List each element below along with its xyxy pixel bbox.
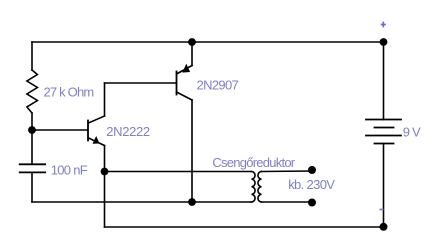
wire Q1 collector to Q2 base xyxy=(105,82,177,84)
wire battery negative to bottom rail xyxy=(383,144,385,228)
svg-text:100 nF: 100 nF xyxy=(51,163,88,178)
wire left rail top to resistor xyxy=(31,42,33,70)
wire node E down to bottom rail xyxy=(104,172,106,228)
junction node B xyxy=(28,126,36,134)
junction Q2 collector primary bottom xyxy=(188,198,196,206)
junction top rail right battery xyxy=(380,38,388,46)
svg-text:kb. 230V: kb. 230V xyxy=(288,177,335,192)
wire base of Q1 xyxy=(32,129,88,131)
wire secondary top lead xyxy=(262,170,313,173)
wire top rail to battery positive xyxy=(383,42,385,120)
wire bottom rail xyxy=(105,226,384,228)
junction top rail Q2 emitter xyxy=(188,38,196,46)
wire Q1 emitter down to node E xyxy=(104,146,106,172)
junction bottom rail battery negative xyxy=(380,223,388,231)
label battery minus xyxy=(379,209,383,211)
terminal secondary top xyxy=(308,166,316,174)
wire capacitor to bottom-left corner xyxy=(31,172,33,202)
capacitor C1 100 nF xyxy=(20,164,45,172)
svg-text:27 k Ohm: 27 k Ohm xyxy=(44,85,94,100)
transistor Q2 2N2907 xyxy=(177,64,193,100)
wire Q2 collector down to bottom node xyxy=(191,100,193,202)
junction node E xyxy=(101,168,109,176)
battery BT1 plates xyxy=(366,120,401,144)
transistor Q1 2N2222 xyxy=(88,116,105,146)
wire top rail xyxy=(32,41,384,43)
transformer T1 secondary winding xyxy=(258,172,262,203)
wire bottom-left horizontal to transformer primary bottom xyxy=(32,201,252,203)
wire secondary bottom lead xyxy=(262,201,313,203)
wire Q2 emitter to top rail xyxy=(191,42,193,66)
resistor R1 27 k Ohm xyxy=(27,70,38,113)
svg-text:2N2907: 2N2907 xyxy=(197,78,239,93)
label battery plus xyxy=(381,22,386,28)
wire node E to transformer primary top xyxy=(105,171,252,173)
transformer T1 primary winding xyxy=(252,172,256,203)
wire resistor to node B xyxy=(31,113,33,130)
svg-text:2N2222: 2N2222 xyxy=(106,124,150,139)
terminal secondary bottom xyxy=(308,199,316,207)
wire node B to capacitor xyxy=(31,130,33,164)
svg-text:9 V: 9 V xyxy=(403,125,421,140)
wire Q1 collector up xyxy=(104,83,106,116)
svg-text:Csengőreduktor: Csengőreduktor xyxy=(212,155,295,170)
